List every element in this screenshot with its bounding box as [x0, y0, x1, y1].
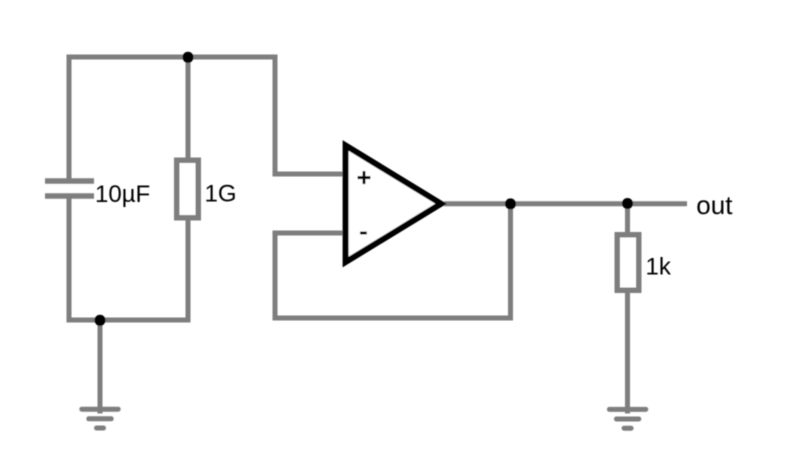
- node: top junction: [183, 52, 194, 63]
- wire: op-amp output to out: [444, 201, 687, 206]
- wire: cap top, up left side, along top, down to +in: [69, 57, 346, 184]
- capacitor C1 10uF: [45, 181, 94, 196]
- ground: right: [609, 409, 645, 428]
- wire: cap bottom, down left side, along bottom, up to R1G bottom: [69, 194, 188, 321]
- pin - (inverting input): [360, 232, 367, 235]
- ground: left: [82, 409, 118, 428]
- wire: R1k bottom down to ground: [625, 291, 630, 414]
- wire: output node down to R1k top: [625, 204, 630, 235]
- resistor R1 1G: [177, 160, 199, 218]
- wire: bottom node down to ground: [98, 320, 103, 414]
- svg-text:out: out: [696, 190, 733, 220]
- resistor R2 1k: [617, 235, 639, 291]
- op-amp U1: [346, 146, 441, 263]
- svg-text:1k: 1k: [646, 254, 672, 281]
- node: output junction at R1k: [622, 198, 633, 209]
- svg-text:1G: 1G: [205, 181, 237, 208]
- node: bottom-left junction: [95, 315, 106, 326]
- svg-text:10µF: 10µF: [95, 181, 150, 208]
- node: output junction at feedback: [505, 198, 516, 209]
- wire: top node down to R1G top: [186, 57, 191, 159]
- pin + (non-inverting input): [358, 171, 371, 184]
- wire: -in feedback loop to output node: [275, 204, 511, 318]
